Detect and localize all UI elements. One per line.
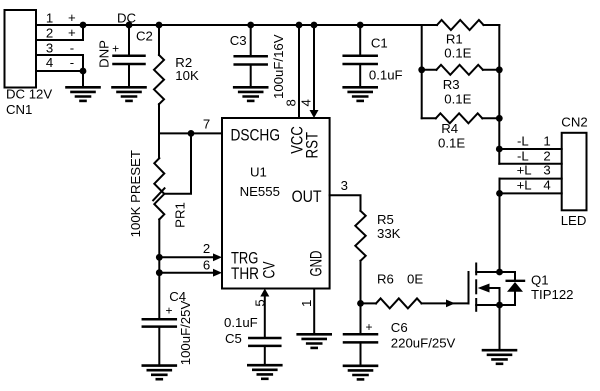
- svg-text:3: 3: [543, 163, 550, 178]
- node CN1 pins 1-2 junction: [80, 22, 87, 29]
- node junction C1: [357, 22, 364, 29]
- wire R6 to Q1 gate: [422, 302, 469, 304]
- svg-text:CN2: CN2: [561, 114, 587, 129]
- svg-text:R4: R4: [441, 121, 458, 136]
- svg-text:+: +: [365, 320, 372, 334]
- wire R4 row right: [482, 117, 499, 119]
- wire C5 bottom: [264, 346, 266, 365]
- capacitor C6: [344, 333, 377, 336]
- svg-text:LED: LED: [561, 213, 587, 228]
- wire PR1 wiper: [164, 133, 191, 193]
- ground at CN1: [67, 86, 100, 89]
- svg-text:1: 1: [46, 11, 53, 26]
- svg-text:C5: C5: [225, 331, 242, 346]
- resistor R2: [154, 55, 164, 104]
- resistor R3: [436, 65, 483, 75]
- svg-text:2: 2: [203, 241, 210, 256]
- svg-text:C3: C3: [230, 33, 247, 48]
- svg-text:10K: 10K: [175, 68, 199, 83]
- wire CN1 pin4: [36, 70, 83, 72]
- node R5 R6 C6 junction: [357, 300, 364, 307]
- wire RST pin 4: [313, 25, 315, 111]
- svg-text:DC: DC: [117, 11, 137, 26]
- wire C3 top: [250, 25, 252, 56]
- svg-text:R3: R3: [443, 77, 460, 92]
- svg-text:THR: THR: [231, 265, 259, 283]
- ground at C3: [234, 86, 267, 89]
- svg-text:OUT: OUT: [292, 188, 322, 206]
- node R4 right junction: [496, 115, 503, 122]
- node junction RST: [311, 22, 318, 29]
- wire C2 bottom: [128, 64, 130, 87]
- svg-text:8: 8: [284, 99, 299, 106]
- svg-text:5: 5: [252, 299, 267, 306]
- node pin7 wiper junction: [188, 130, 195, 137]
- svg-text:4: 4: [543, 178, 550, 193]
- node CN2 pin1 junction: [496, 146, 503, 153]
- svg-text:R5: R5: [377, 212, 394, 227]
- svg-text:0.1uF: 0.1uF: [224, 315, 258, 330]
- wire C4 top: [158, 273, 160, 320]
- wire Q1 drain stub: [476, 271, 515, 273]
- wire R6 left: [361, 302, 377, 304]
- wire R3 row left: [422, 69, 437, 71]
- svg-text:GND: GND: [308, 250, 326, 276]
- svg-text:C2: C2: [136, 29, 153, 44]
- svg-text:100uF/16V: 100uF/16V: [271, 34, 286, 99]
- svg-text:6: 6: [203, 257, 210, 272]
- svg-text:+: +: [165, 304, 172, 318]
- capacitor C2: [114, 55, 145, 58]
- svg-text:-: -: [70, 40, 74, 55]
- svg-text:R6: R6: [377, 272, 394, 287]
- node R3 left junction: [418, 66, 425, 73]
- ground at Q1 source: [483, 349, 516, 352]
- wire +12V DC rail: [83, 24, 437, 26]
- wire C1 bottom: [359, 64, 361, 87]
- svg-text:-L: -L: [517, 134, 529, 149]
- wire R2 to PR1: [158, 104, 160, 158]
- wire CN2 pin4: [500, 192, 562, 194]
- svg-text:CV: CV: [261, 262, 279, 279]
- wire C2 top: [128, 25, 130, 56]
- resistor R6: [376, 298, 422, 308]
- wire CN2 pin3: [500, 178, 562, 180]
- connector CN2: [562, 133, 587, 211]
- svg-text:-: -: [70, 55, 74, 70]
- wire R3 row right: [483, 69, 499, 71]
- node Q1 drain junction: [496, 269, 503, 276]
- svg-text:33K: 33K: [377, 226, 401, 241]
- potentiometer PR1: [154, 158, 164, 219]
- node DC junction C2: [126, 22, 133, 29]
- svg-text:TIP122: TIP122: [531, 287, 574, 302]
- wire C1 top: [359, 25, 361, 56]
- svg-text:+: +: [68, 25, 76, 40]
- wire TRG pin 2: [159, 256, 214, 258]
- svg-text:RST: RST: [304, 132, 322, 159]
- wire Q1 source to ground: [499, 305, 501, 350]
- wire R1 right to bus: [484, 24, 500, 26]
- svg-text:3: 3: [46, 40, 53, 55]
- svg-text:C6: C6: [391, 320, 408, 335]
- ground at U1 pin1: [298, 333, 331, 336]
- wire R4 row left: [422, 117, 436, 119]
- svg-text:0.1E: 0.1E: [444, 46, 471, 61]
- wire CN1 pin2: [36, 25, 83, 40]
- wire right bus to CN2: [498, 25, 500, 164]
- PR1 wiper contact slash: [153, 188, 164, 200]
- node CN1 pins 3-4 junction: [80, 68, 87, 75]
- svg-text:+: +: [112, 42, 119, 56]
- wire anode bus to Q1 drain: [499, 179, 501, 272]
- Q1 body arrow: [478, 284, 490, 293]
- wire C4 bottom: [158, 327, 160, 366]
- svg-text:+L: +L: [517, 163, 532, 178]
- wire VCC pin 8: [298, 25, 300, 118]
- wire Q1 body stub: [489, 288, 500, 305]
- wire C3 bottom: [250, 65, 252, 88]
- node THR junction: [156, 269, 163, 276]
- svg-text:0.1E: 0.1E: [444, 91, 471, 106]
- ground at C2: [113, 86, 146, 89]
- svg-text:R1: R1: [446, 32, 463, 47]
- node junction C3: [247, 22, 254, 29]
- wire GND pin 1: [313, 289, 315, 335]
- wire C6 top: [360, 303, 362, 334]
- svg-text:0.1E: 0.1E: [438, 135, 465, 150]
- svg-text:+L: +L: [517, 178, 532, 193]
- svg-text:220uF/25V: 220uF/25V: [391, 335, 456, 350]
- ground at C1: [344, 86, 377, 89]
- svg-text:U1: U1: [250, 164, 267, 179]
- svg-text:100K PRESET: 100K PRESET: [128, 150, 143, 237]
- node Q1 source junction: [496, 302, 503, 309]
- ground at C5: [248, 364, 281, 367]
- capacitor C4: [143, 318, 176, 321]
- svg-text:7: 7: [203, 116, 210, 131]
- wire R2 top: [158, 25, 160, 55]
- svg-text:0.1uF: 0.1uF: [369, 68, 403, 83]
- transistor Q1 gate bar: [468, 272, 470, 303]
- svg-text:NE555: NE555: [240, 184, 280, 199]
- wire R5 to node: [360, 261, 362, 304]
- svg-text:-L: -L: [517, 148, 529, 163]
- node junction R2: [156, 22, 163, 29]
- svg-text:DC 12V: DC 12V: [6, 87, 52, 102]
- svg-text:1: 1: [543, 134, 550, 149]
- wire C6 bottom: [360, 342, 362, 365]
- svg-text:2: 2: [46, 26, 53, 41]
- node TRG junction: [156, 254, 163, 261]
- resistor R1: [437, 20, 484, 30]
- svg-text:CN1: CN1: [6, 102, 32, 117]
- svg-text:DSCHG: DSCHG: [231, 126, 281, 144]
- wire THR pin 6: [159, 272, 214, 274]
- wire CV pin 5: [264, 296, 266, 339]
- connector CN1: [5, 10, 37, 88]
- wire PR1 bottom to THR node: [158, 219, 160, 272]
- svg-text:PR1: PR1: [173, 202, 188, 228]
- wire CN2 pin1: [499, 148, 561, 150]
- capacitor C5: [249, 337, 280, 340]
- node junction VCC: [296, 22, 303, 29]
- svg-text:100uF/25V: 100uF/25V: [178, 301, 193, 366]
- capacitor C3: [235, 55, 267, 58]
- transistor Q1 channel dashes: [475, 264, 477, 275]
- ground at C4: [143, 364, 176, 367]
- wire OUT pin 3: [330, 195, 361, 211]
- wire CN1 pin3: [36, 55, 83, 71]
- svg-text:+: +: [68, 10, 76, 25]
- svg-text:2: 2: [543, 148, 550, 163]
- op-amp U1 NE555 body: [222, 118, 330, 289]
- wire CN1 pin1: [36, 24, 83, 26]
- svg-text:DNP: DNP: [97, 40, 112, 68]
- svg-text:4: 4: [46, 55, 53, 70]
- svg-text:3: 3: [341, 178, 348, 193]
- wire DSCHG pin 7: [159, 132, 222, 134]
- wire CN2 pin2: [499, 163, 561, 165]
- resistor R4: [436, 113, 483, 123]
- capacitor C1: [344, 55, 377, 58]
- node R3 right junction: [496, 66, 503, 73]
- wire Q1 source stub: [476, 304, 515, 306]
- wire left bus of R group: [421, 25, 423, 118]
- svg-text:C1: C1: [371, 36, 388, 51]
- svg-text:4: 4: [298, 99, 313, 106]
- resistor R5: [355, 211, 365, 261]
- ground at C6: [344, 364, 377, 367]
- node CN2 pin4 junction: [496, 190, 503, 197]
- svg-text:Q1: Q1: [531, 272, 549, 287]
- diode Q1 body diode: [514, 272, 516, 281]
- svg-text:1: 1: [299, 300, 314, 307]
- wire CN1 ground stem: [82, 71, 84, 87]
- svg-text:0E: 0E: [407, 272, 423, 287]
